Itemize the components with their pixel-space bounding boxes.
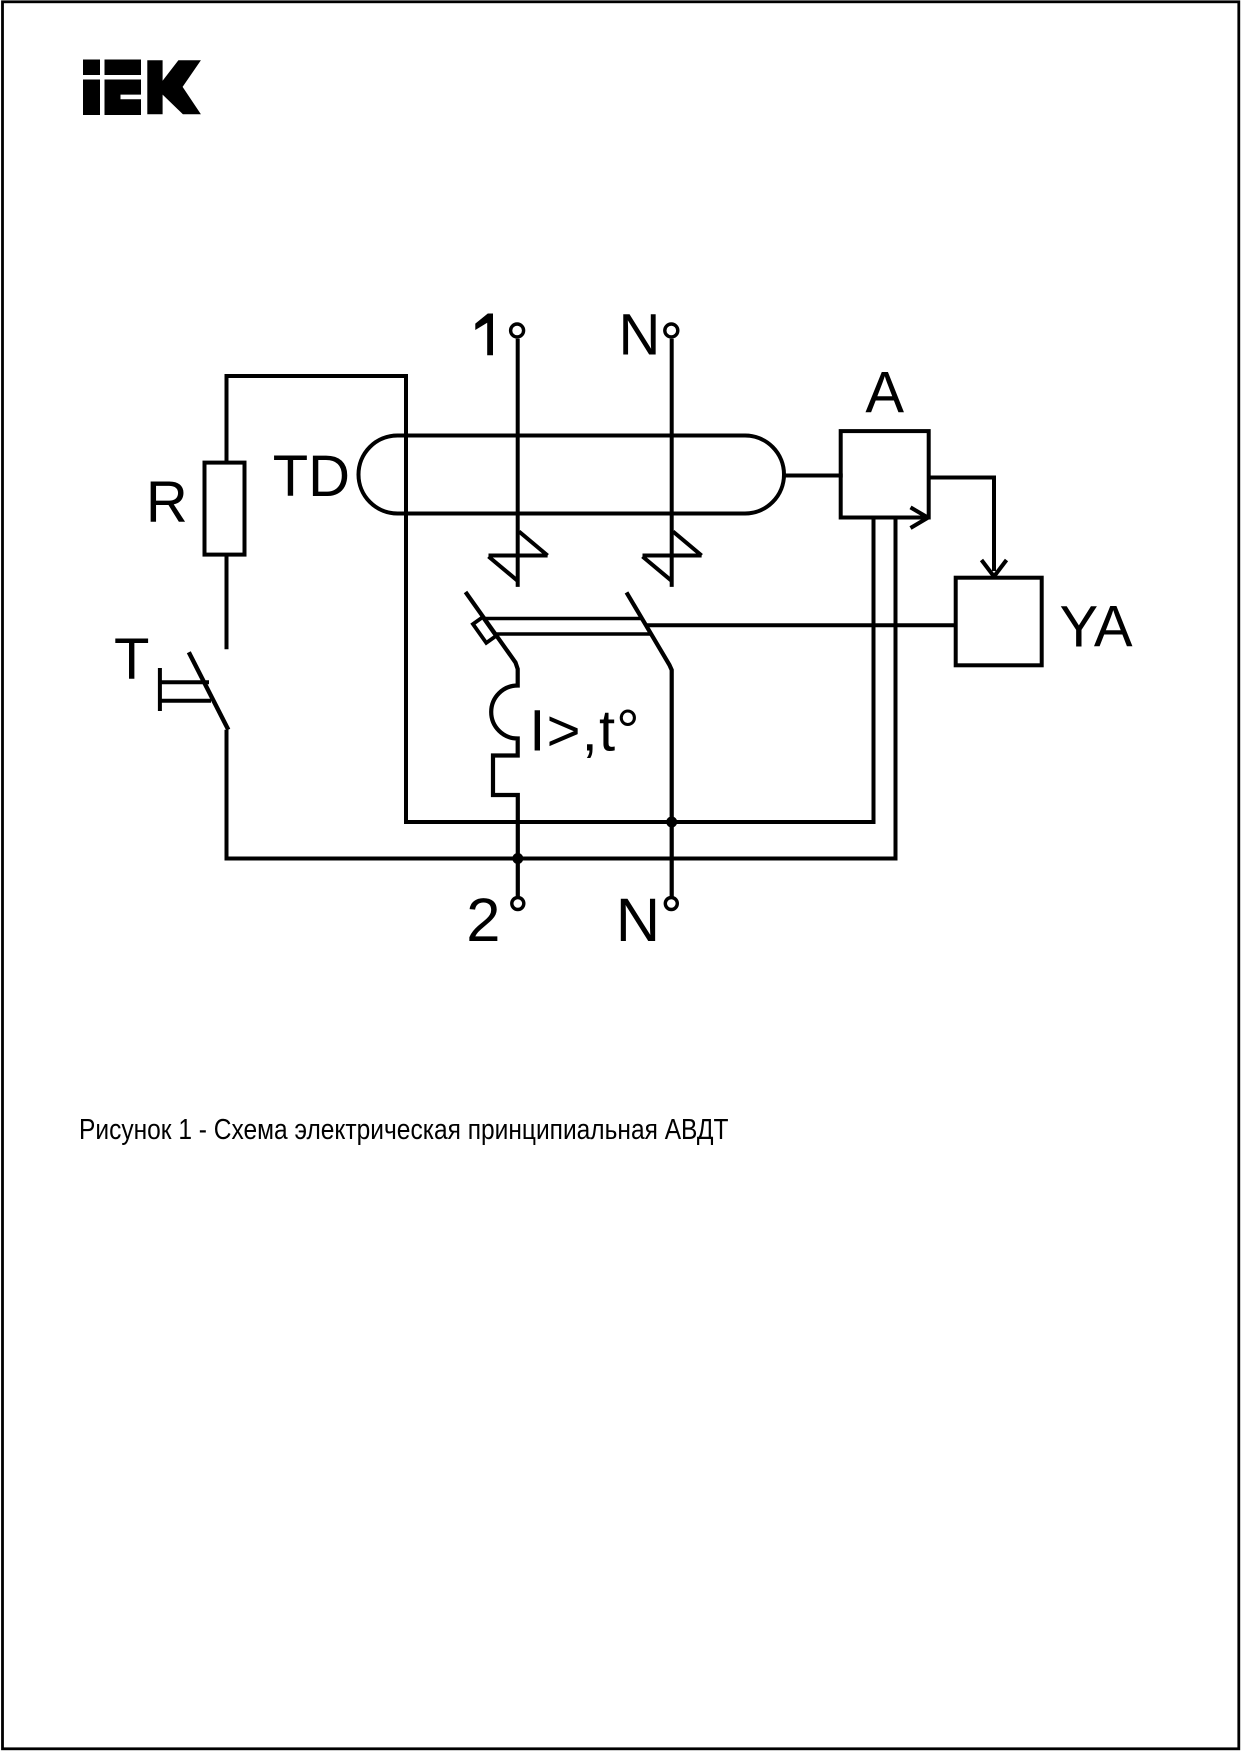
IEK logo letter K xyxy=(147,60,201,114)
svg-text:Рисунок 1 - Схема электрическа: Рисунок 1 - Схема электрическая принципи… xyxy=(79,1113,728,1145)
wire resistor bottom to test button xyxy=(225,555,229,650)
wire lever N to YA xyxy=(646,623,956,627)
wire top loop horizontal xyxy=(225,374,409,378)
junction dot rail 1 / pole N xyxy=(666,817,677,828)
trip coil YA box xyxy=(956,578,1042,666)
svg-text:2: 2 xyxy=(466,886,500,955)
svg-text:N: N xyxy=(619,303,661,368)
trip arrow at A output xyxy=(911,507,929,528)
latch square on lever 1 xyxy=(473,617,496,643)
wire TD to amplifier A xyxy=(782,474,843,478)
terminal 2 circle xyxy=(512,898,524,910)
terminal 1 circle xyxy=(511,324,524,337)
svg-text:TD: TD xyxy=(273,444,350,509)
breaker contact pole N lever xyxy=(627,592,672,897)
wire A box right drop xyxy=(894,518,898,859)
svg-text:I>,t°: I>,t° xyxy=(529,699,640,764)
svg-text:T: T xyxy=(114,627,149,692)
svg-text:YA: YA xyxy=(1059,594,1132,659)
release mark pole 1 xyxy=(489,532,548,581)
breaker contact pole 1 lever and thermal element I>,t° xyxy=(466,592,518,898)
svg-text:A: A xyxy=(865,360,904,425)
resistor R xyxy=(205,463,245,555)
test button T lever xyxy=(189,652,229,730)
terminal N bottom circle xyxy=(665,898,677,910)
wire T button branch to rail 2 xyxy=(225,730,229,861)
svg-text:N: N xyxy=(616,886,660,955)
wire A box left drop xyxy=(872,518,876,823)
wire bottom rail 2 xyxy=(227,857,898,861)
wire pole 1 upper xyxy=(516,339,520,587)
wire pole N upper xyxy=(670,339,674,587)
release mark pole N xyxy=(643,532,702,581)
wire bottom rail 1 xyxy=(406,820,876,824)
current transformer TD toroid xyxy=(359,436,785,514)
wire TD left vertical xyxy=(404,374,408,824)
amplifier block A xyxy=(841,431,929,517)
wire left vertical to resistor xyxy=(225,374,229,463)
wire A to YA xyxy=(929,478,994,572)
test button T actuator xyxy=(158,668,211,711)
svg-text:R: R xyxy=(146,469,188,534)
mechanical linkage double line xyxy=(484,617,642,621)
junction dot rail 2 / pole 1 xyxy=(512,853,523,864)
terminal N top circle xyxy=(665,324,678,337)
IEK logo letter i xyxy=(83,60,100,116)
IEK logo letter E xyxy=(105,60,142,116)
label terminal 1 xyxy=(475,314,493,356)
arrow into YA xyxy=(982,560,1007,577)
